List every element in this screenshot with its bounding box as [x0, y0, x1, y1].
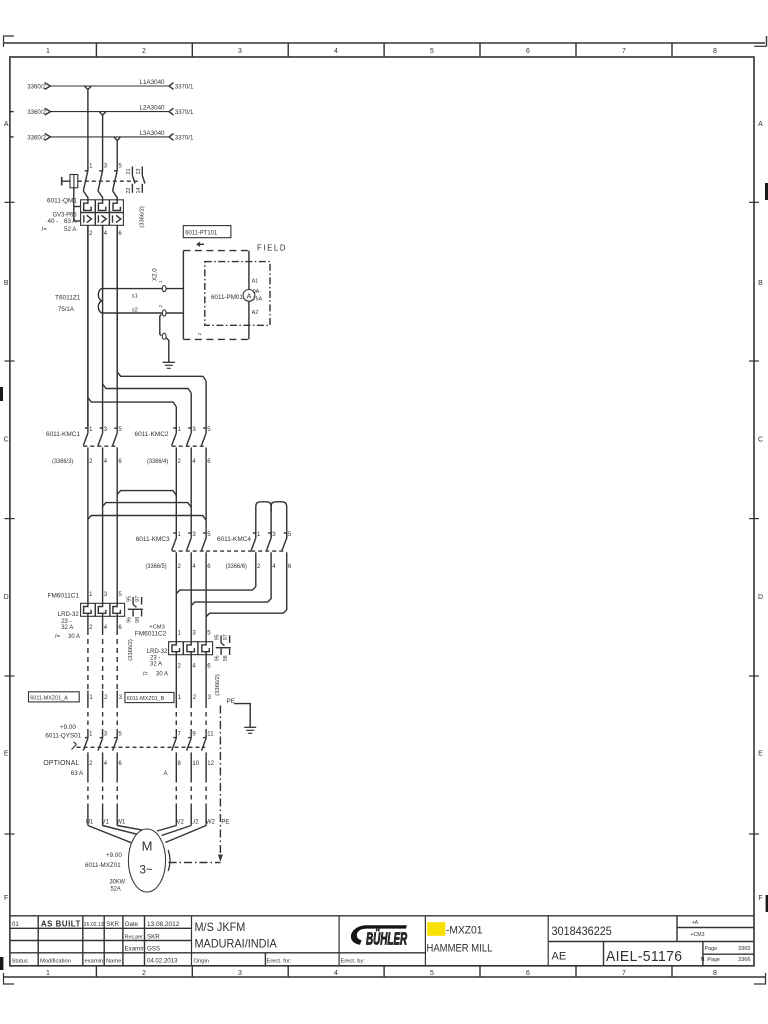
svg-text:6011-MXZ01_A: 6011-MXZ01_A: [30, 695, 68, 701]
svg-text:63 A: 63 A: [64, 218, 77, 225]
svg-text:AE: AE: [552, 951, 567, 963]
svg-text:3018436225: 3018436225: [551, 925, 611, 937]
svg-text:FM6011C2: FM6011C2: [135, 630, 167, 637]
svg-text:95: 95: [215, 634, 221, 640]
svg-text:/=: /=: [42, 226, 48, 233]
svg-text:+A: +A: [692, 920, 699, 926]
svg-text:M: M: [142, 839, 153, 854]
svg-text:8: 8: [713, 970, 717, 977]
svg-text:14: 14: [136, 188, 142, 194]
svg-text:(3366/3): (3366/3): [52, 459, 73, 465]
svg-text:40 -: 40 -: [48, 218, 59, 225]
svg-text:6011-MXZ01: 6011-MXZ01: [85, 862, 121, 869]
svg-text:96: 96: [215, 655, 221, 661]
svg-text:3370/1: 3370/1: [175, 83, 194, 90]
svg-text:C: C: [758, 436, 763, 443]
svg-text:E: E: [4, 751, 9, 758]
svg-text:A1: A1: [252, 279, 259, 285]
svg-text:LRD-32: LRD-32: [58, 611, 79, 618]
svg-text:6: 6: [526, 970, 530, 977]
svg-text:MADURAI/INDIA: MADURAI/INDIA: [195, 937, 277, 951]
svg-text:M/S JKFM: M/S JKFM: [195, 920, 246, 934]
svg-text:+CM3: +CM3: [691, 932, 705, 938]
svg-text:1: 1: [46, 48, 50, 55]
svg-text:A: A: [758, 121, 763, 128]
svg-text:30 A: 30 A: [68, 634, 80, 640]
svg-text:97: 97: [135, 596, 141, 602]
svg-text:32 A: 32 A: [150, 661, 162, 667]
svg-text:30 A: 30 A: [156, 672, 168, 678]
svg-text:2: 2: [197, 333, 203, 336]
svg-text:52A: 52A: [111, 886, 121, 892]
svg-text:98: 98: [223, 655, 229, 661]
svg-text:+9.00: +9.00: [106, 852, 122, 859]
svg-text:AIEL-51176: AIEL-51176: [606, 948, 682, 965]
svg-text:Erect. for:: Erect. for:: [267, 958, 293, 964]
svg-text:BÜHLER: BÜHLER: [366, 928, 408, 948]
svg-text:examin: examin: [85, 958, 104, 964]
svg-text:FIELD: FIELD: [257, 243, 287, 252]
svg-text:/=: /=: [143, 672, 149, 678]
svg-text:21: 21: [126, 169, 132, 175]
svg-text:AS BUILT: AS BUILT: [41, 919, 81, 928]
svg-text:5: 5: [430, 48, 434, 55]
svg-text:(3366/2): (3366/2): [128, 639, 134, 661]
svg-text:Examin: Examin: [125, 945, 146, 952]
svg-text:Page: Page: [705, 946, 718, 952]
svg-text:6011-KMC2: 6011-KMC2: [135, 431, 169, 438]
svg-text:(3366/6): (3366/6): [226, 564, 247, 570]
svg-text:B: B: [4, 280, 9, 287]
svg-text:04.02.2013: 04.02.2013: [147, 957, 178, 964]
svg-text:OPTIONAL: OPTIONAL: [43, 760, 79, 767]
svg-text:3360/2: 3360/2: [27, 134, 46, 141]
svg-text:75/1A: 75/1A: [58, 306, 75, 313]
svg-text:W2: W2: [206, 820, 216, 826]
svg-text:7: 7: [622, 48, 626, 55]
svg-text:(3366/5): (3366/5): [146, 564, 167, 570]
svg-text:(3366/2): (3366/2): [140, 206, 146, 228]
svg-text:52 A: 52 A: [64, 226, 77, 233]
svg-text:2: 2: [142, 970, 146, 977]
svg-text:N. Page: N. Page: [701, 957, 720, 963]
svg-text:L2A3040: L2A3040: [140, 104, 165, 111]
svg-text:V2: V2: [177, 820, 185, 826]
svg-text:s2: s2: [132, 307, 138, 313]
svg-text:3: 3: [238, 48, 242, 55]
svg-text:Modification: Modification: [40, 958, 71, 964]
svg-text:6011-PM01: 6011-PM01: [211, 294, 243, 301]
svg-text:Name: Name: [106, 958, 121, 964]
svg-text:1: 1: [46, 970, 50, 977]
svg-text:22: 22: [126, 188, 132, 194]
svg-text:6: 6: [526, 48, 530, 55]
svg-text:96: 96: [127, 617, 133, 623]
svg-text:13.08.2012: 13.08.2012: [147, 921, 180, 928]
svg-text:D: D: [758, 594, 763, 601]
svg-text:Erect. by:: Erect. by:: [341, 958, 366, 964]
svg-text:3370/1: 3370/1: [175, 134, 194, 141]
svg-text:W1: W1: [116, 820, 126, 826]
svg-text:4: 4: [334, 48, 338, 55]
svg-text:95: 95: [127, 596, 133, 602]
svg-text:7: 7: [622, 970, 626, 977]
svg-text:26.02.13: 26.02.13: [84, 922, 104, 928]
svg-text:6011-MXZ01_B: 6011-MXZ01_B: [127, 696, 165, 702]
svg-text:C: C: [4, 436, 9, 443]
svg-text:Origin: Origin: [194, 958, 209, 964]
svg-text:A: A: [4, 121, 9, 128]
svg-text:8: 8: [713, 48, 717, 55]
svg-text:GSS: GSS: [147, 945, 160, 952]
svg-text:L1A3040: L1A3040: [140, 79, 165, 86]
svg-text:98: 98: [135, 617, 141, 623]
svg-text:4: 4: [334, 970, 338, 977]
svg-text:T6011Z1: T6011Z1: [55, 294, 81, 301]
svg-text:U2: U2: [191, 820, 199, 826]
svg-text:13: 13: [136, 169, 142, 175]
svg-text:75A: 75A: [253, 297, 263, 303]
svg-text:6011-KMC1: 6011-KMC1: [46, 431, 80, 438]
svg-text:HAMMER MILL: HAMMER MILL: [427, 943, 493, 955]
svg-text:2: 2: [158, 305, 164, 308]
svg-text:3365: 3365: [738, 946, 750, 952]
svg-text:SKR: SKR: [106, 921, 119, 928]
svg-text:D: D: [4, 594, 9, 601]
svg-text:5: 5: [430, 970, 434, 977]
svg-text:97: 97: [223, 634, 229, 640]
svg-text:63 A: 63 A: [71, 770, 84, 777]
svg-text:PE: PE: [221, 820, 229, 826]
svg-text:A: A: [246, 291, 251, 300]
svg-text:(3366/2): (3366/2): [215, 674, 221, 696]
svg-text:6011-KMC3: 6011-KMC3: [136, 536, 170, 543]
svg-text:3~: 3~: [139, 865, 152, 877]
svg-text:-MXZ01: -MXZ01: [446, 924, 482, 937]
svg-text:2: 2: [142, 48, 146, 55]
svg-text:L3A3040: L3A3040: [140, 130, 165, 137]
svg-text:Status: Status: [12, 958, 29, 964]
svg-text:+9.00: +9.00: [60, 724, 76, 731]
svg-text:6011-QYS01: 6011-QYS01: [45, 732, 81, 739]
svg-text:3360/2: 3360/2: [27, 83, 46, 90]
svg-text:3370/1: 3370/1: [175, 109, 194, 116]
svg-text:V1: V1: [102, 820, 110, 826]
svg-text:F: F: [4, 895, 8, 902]
svg-text:U1: U1: [86, 820, 94, 826]
svg-text:(3366/4): (3366/4): [147, 459, 168, 465]
svg-text:6011-KMC4: 6011-KMC4: [217, 536, 251, 543]
svg-text:12: 12: [207, 761, 214, 767]
svg-text:6011-QM1: 6011-QM1: [47, 197, 77, 204]
svg-text:3: 3: [238, 970, 242, 977]
svg-text:FM6011C1: FM6011C1: [48, 592, 80, 599]
svg-text:10: 10: [192, 761, 199, 767]
svg-text:32 A: 32 A: [61, 625, 73, 631]
svg-text:0A-: 0A-: [253, 289, 261, 295]
svg-text:3360/2: 3360/2: [27, 109, 46, 116]
svg-text:A2: A2: [252, 310, 259, 316]
svg-text:E: E: [758, 751, 763, 758]
svg-text:F: F: [758, 895, 762, 902]
svg-text:SKR: SKR: [147, 933, 160, 940]
svg-text:s1: s1: [132, 293, 138, 299]
svg-text:30KW: 30KW: [110, 879, 126, 885]
svg-text:Res.per: Res.per: [125, 934, 143, 940]
svg-text:01: 01: [12, 922, 19, 928]
svg-text:/=: /=: [55, 634, 61, 640]
svg-text:PE: PE: [227, 698, 236, 705]
svg-text:Date: Date: [125, 921, 139, 928]
svg-text:X2.0: X2.0: [152, 268, 159, 281]
svg-text:1: 1: [158, 280, 164, 283]
svg-text:LRD-32: LRD-32: [147, 648, 168, 655]
svg-text:B: B: [758, 280, 763, 287]
svg-text:3366: 3366: [738, 957, 750, 963]
svg-text:11: 11: [207, 731, 214, 737]
svg-text:6011-PT101: 6011-PT101: [185, 230, 218, 236]
